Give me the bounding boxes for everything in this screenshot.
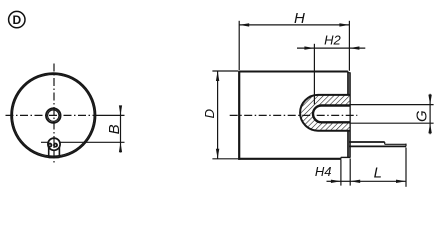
pin circle (front view) <box>48 138 60 150</box>
dimension G <box>349 94 433 134</box>
hub inner circle <box>48 110 59 121</box>
pin cross-section left coil <box>48 144 51 147</box>
bore hatch (section) <box>300 95 349 131</box>
side view center line <box>230 114 358 116</box>
dimension H2 <box>297 33 365 105</box>
B top extension line (center line extension) <box>96 114 125 116</box>
bore inner capsule (pin hole) <box>313 106 350 123</box>
svg-text:B: B <box>106 124 123 134</box>
front horizontal center line <box>6 114 97 116</box>
bore outer outline <box>300 95 349 131</box>
svg-text:H: H <box>294 10 305 27</box>
dimension B <box>106 105 123 152</box>
front view outer circle <box>11 73 95 157</box>
svg-text:H4: H4 <box>315 164 332 179</box>
pin cross-section right coil <box>54 144 57 147</box>
svg-text:G: G <box>414 110 431 122</box>
pin center extension line (B bottom) <box>41 141 125 143</box>
dimension H4 <box>315 159 350 186</box>
view label D (circled) <box>9 11 25 27</box>
hub outer circle <box>46 108 61 123</box>
svg-text:H2: H2 <box>324 33 341 48</box>
side view body outline <box>238 71 350 160</box>
front view inner rim circle <box>13 75 95 157</box>
dimension D <box>202 71 238 159</box>
dimension H <box>239 10 349 71</box>
dimension L <box>350 148 406 187</box>
svg-text:D: D <box>202 109 217 118</box>
svg-text:D: D <box>12 13 21 27</box>
front vertical center line <box>53 64 55 165</box>
pin boss outline <box>49 147 60 157</box>
svg-text:L: L <box>374 165 382 182</box>
pin side view <box>349 142 406 146</box>
